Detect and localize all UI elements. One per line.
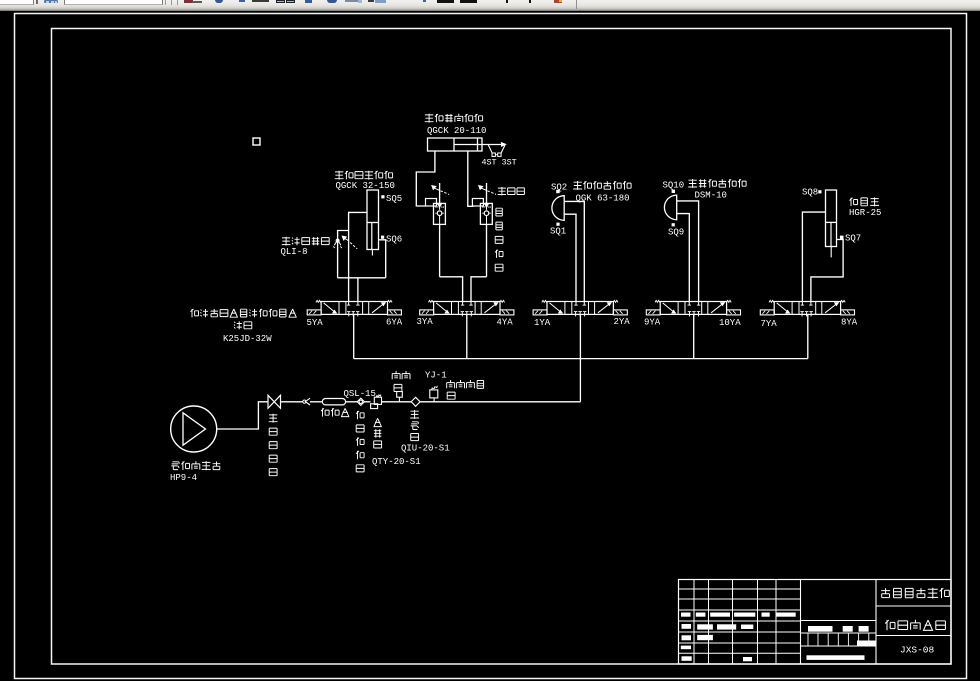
SQ7 square and label <box>840 236 844 240</box>
svg-text:8YA: 8YA <box>841 318 858 328</box>
title block filled bars <box>681 613 691 617</box>
valve V3 (1YA/2YA) <box>547 302 613 315</box>
check valve on supply line <box>305 398 310 405</box>
wire: quick-exhaust 2 to valve V2 port B <box>471 277 487 302</box>
SQ9 square and label <box>672 223 675 226</box>
label 湖南科技大学 <box>881 588 949 599</box>
bypass wire with check valve QLI-8 <box>338 231 349 278</box>
label 气抓手 HGR-25 <box>850 197 880 206</box>
SQ2 square and label <box>556 190 559 193</box>
svg-text:6YA: 6YA <box>386 317 403 327</box>
label 调节阀 <box>498 187 525 195</box>
svg-text:SQ10: SQ10 <box>663 180 685 190</box>
SQ8 square and label <box>818 190 821 193</box>
title block left grid <box>679 588 801 590</box>
SQ6 switch square <box>381 236 384 239</box>
supply riser from manifold to air line <box>579 359 581 402</box>
svg-text:DSM-10: DSM-10 <box>695 191 727 201</box>
svg-text:SQ5: SQ5 <box>386 194 402 204</box>
cylinder: arm extend QGCK 32-150 <box>367 190 379 250</box>
svg-text:7YA: 7YA <box>761 319 778 329</box>
svg-text:QGCK 20-110: QGCK 20-110 <box>427 126 486 136</box>
wire to relief valve <box>364 401 370 403</box>
svg-text:2YA: 2YA <box>614 317 631 327</box>
svg-text:SQ7: SQ7 <box>845 234 861 244</box>
wires rotary 1 to valve V3 <box>564 201 584 302</box>
check valve symbol <box>334 240 341 246</box>
wire: valve V1 port A up to extend cylinder cap <box>349 212 367 302</box>
quick exhaust valve 2 <box>480 203 492 224</box>
wire: quick-exhaust 1 to valve V2 port A <box>440 277 463 302</box>
svg-text:QLI-8: QLI-8 <box>281 247 308 257</box>
wire: to valve V1 port B <box>357 278 359 302</box>
svg-text:YJ-1: YJ-1 <box>425 371 447 381</box>
pressure relay YJ-1 <box>430 390 438 398</box>
svg-text:SQ1: SQ1 <box>550 226 566 236</box>
valve V5 (7YA/8YA) <box>774 302 840 315</box>
gripper trapezoid with rollers 4ST 3ST <box>488 145 492 154</box>
label 单向节流阀 QLI-8 <box>282 237 330 246</box>
svg-text:QGCK 32-150: QGCK 32-150 <box>336 181 395 191</box>
wire compressor to shutoff valve <box>217 402 268 429</box>
svg-text:JXS-08: JXS-08 <box>900 645 935 656</box>
SQ1 square and label <box>556 223 559 226</box>
SQ5 switch square <box>381 195 384 198</box>
label 手臂升降气缸 <box>425 114 483 123</box>
svg-text:K25JD-32W: K25JD-32W <box>223 334 272 344</box>
air tank 储气罐 (capsule) <box>322 399 345 405</box>
wire lubricator to riser <box>420 401 580 403</box>
svg-text:SQ2: SQ2 <box>551 183 567 193</box>
valve V4 (9YA/10YA) <box>660 302 726 315</box>
svg-text:SQ9: SQ9 <box>668 228 684 238</box>
svg-text:SQ6: SQ6 <box>386 235 402 245</box>
label 二位五通双电控先导式换向阀 K25JD-32W <box>191 309 297 317</box>
rotary actuator: wrist rotate DSM-10 <box>664 195 676 220</box>
label 手臂伸缩气缸 <box>335 171 393 180</box>
svg-text:3YA: 3YA <box>417 317 434 327</box>
manifold wire <box>354 358 808 360</box>
svg-text:10YA: 10YA <box>719 318 741 328</box>
title block middle column <box>801 620 877 622</box>
air filter (diamond with circle) <box>357 398 364 405</box>
wire to air tank <box>310 401 322 403</box>
wire: gripper rod side to valve V5 port B <box>811 240 843 303</box>
wires rotary 2 to valve V4 <box>677 201 699 302</box>
svg-text:HGR-25: HGR-25 <box>849 208 881 218</box>
air compressor HP9-4 <box>171 406 217 452</box>
rod line and arrow <box>482 144 505 146</box>
throttle arrow on cap line <box>344 238 347 239</box>
svg-text:QTY-20-S1: QTY-20-S1 <box>372 457 421 467</box>
svg-text:4ST 3ST: 4ST 3ST <box>482 158 517 168</box>
wire to filter <box>346 401 358 403</box>
svg-text:9YA: 9YA <box>644 318 661 328</box>
label 手腕回转气缸 <box>688 179 746 188</box>
node marker square <box>253 138 260 145</box>
label 气动原理图 <box>885 620 945 631</box>
svg-text:QIU-20-S1: QIU-20-S1 <box>401 444 450 454</box>
relief valve QTY-20-S1 <box>374 397 381 404</box>
wire: lift cylinder cap side to quick-exhaust 1 <box>416 151 435 206</box>
manual shut-off valve (bowtie) <box>268 395 281 408</box>
cylinder: arm lift QGCK 20-110 <box>428 138 483 151</box>
svg-text:5YA: 5YA <box>307 318 324 328</box>
svg-text:1YA: 1YA <box>534 318 551 328</box>
wire: lift cylinder rod side to quick-exhaust 2 <box>468 151 474 206</box>
pressure gauge 压力表 <box>397 392 403 398</box>
label 手动截止阀 vertical <box>269 414 278 476</box>
wire: bottom bypass horizontal <box>338 277 386 279</box>
svg-text:HP9-4: HP9-4 <box>170 473 197 483</box>
cylinder: gripper HGR-25 <box>826 190 837 247</box>
quick exhaust valve 1 <box>434 203 446 224</box>
SQ10 square and label <box>672 190 675 193</box>
label 快速排气阀 vertical <box>495 208 503 271</box>
svg-text:4YA: 4YA <box>497 318 514 328</box>
lubricator 油雾器 (diamond) <box>411 397 420 406</box>
wire: valve V5 port A to gripper cap <box>802 212 825 302</box>
title block table <box>679 580 952 665</box>
label 手臂回转气缸 <box>573 181 631 190</box>
valve V2 (3YA/4YA) <box>434 302 500 315</box>
wire relief to lubricator <box>382 401 412 403</box>
svg-text:SQ8: SQ8 <box>802 188 818 198</box>
wire to check valve <box>281 401 303 403</box>
svg-text:QSL-15: QSL-15 <box>344 389 376 399</box>
wire: rod side of extend cylinder down <box>379 240 386 278</box>
valve V1 K25JD-32W (5YA/6YA) <box>321 302 387 315</box>
rotary actuator: arm rotate QGK 63-180 <box>552 196 564 221</box>
